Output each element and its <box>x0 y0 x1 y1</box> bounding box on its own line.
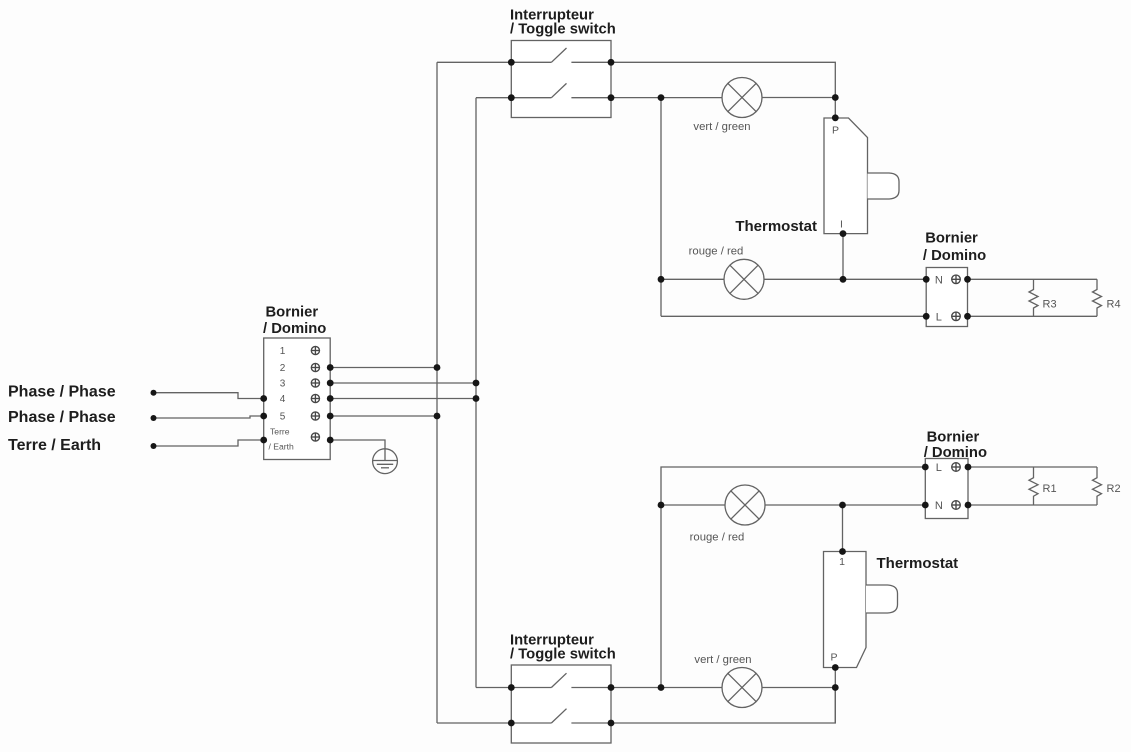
wire vertical bus V1 <box>436 62 438 723</box>
svg-text:Bornier: Bornier <box>925 231 978 247</box>
svg-text:L: L <box>936 312 942 324</box>
wire lamp DS2 to bornier X2 <box>764 278 926 280</box>
wire X1 earth to ground <box>330 440 385 449</box>
node phase 1 input <box>151 390 157 396</box>
bornier X3 label <box>924 430 987 462</box>
svg-text:Terre: Terre <box>270 427 290 437</box>
junction X1 row5 to V1 <box>434 413 441 420</box>
junction lamp DS1 feed <box>658 94 665 101</box>
wire X1 row2 to V1 <box>330 367 437 369</box>
toggle switch S1 label <box>510 8 616 38</box>
svg-text:1: 1 <box>839 556 845 568</box>
thermostat TH1 body <box>824 118 899 234</box>
svg-text:Terre / Earth: Terre / Earth <box>8 437 101 454</box>
bornier X1 row 5 <box>280 412 320 423</box>
svg-text:/ Toggle switch: / Toggle switch <box>510 647 616 663</box>
junction X1 row4 pin <box>327 395 334 402</box>
thermostat TH2 body <box>824 552 898 668</box>
junction TH2 pin P <box>832 664 839 671</box>
wire L row to resistors <box>968 315 1098 317</box>
svg-text:5: 5 <box>280 412 286 423</box>
svg-text:Thermostat: Thermostat <box>735 218 817 235</box>
wire phase 1 input <box>154 393 264 399</box>
bornier X3 pin N <box>935 500 960 512</box>
svg-text:/ Domino: / Domino <box>923 248 986 264</box>
junction S2 pole2 left <box>508 720 515 727</box>
wire earth input <box>154 440 264 446</box>
svg-text:R3: R3 <box>1043 299 1057 311</box>
svg-text:N: N <box>935 275 943 287</box>
svg-text:rouge / red: rouge / red <box>689 246 744 258</box>
junction X1 row3 to V2 <box>473 380 480 387</box>
svg-text:Bornier: Bornier <box>266 305 319 321</box>
wire lamp DS1 to junction <box>762 97 835 99</box>
wire lamp DS4 to junction <box>762 687 835 689</box>
wire S2 pole2 right up to thermostat P <box>611 688 835 724</box>
bornier X1 row 3 <box>280 379 320 390</box>
junction X1 row4 input <box>260 395 267 402</box>
wire S1 pole2 right to lamp DS1 <box>611 97 722 99</box>
bornier X3 pin L <box>936 462 961 474</box>
lamp DS3 rouge/red <box>725 485 765 525</box>
svg-text:/ Earth: / Earth <box>269 442 295 452</box>
lamp DS4 vert/green <box>722 668 762 708</box>
wire rouge row to lamp DS2 <box>661 278 724 280</box>
junction X1 earth input <box>260 437 267 444</box>
toggle switch S1 box <box>511 41 611 118</box>
bornier X1 label <box>263 305 326 338</box>
svg-text:Bornier: Bornier <box>927 430 980 446</box>
bornier X1 row 2 <box>280 363 320 374</box>
junction S1 pole2 right <box>608 94 615 101</box>
junction dots bottom section <box>508 464 971 727</box>
junction X1 earth pin <box>327 437 334 444</box>
svg-text:R1: R1 <box>1043 483 1057 495</box>
wire S1 pole1 left to V1 <box>437 61 511 63</box>
junction lamp DS4 right / TH2 P branch <box>832 684 839 691</box>
junction S2 pole1 left <box>508 684 515 691</box>
svg-text:I: I <box>840 219 843 231</box>
svg-text:P: P <box>832 125 839 137</box>
ground symbol <box>373 449 398 474</box>
wire N row lamp DS3 left <box>661 504 725 506</box>
junction S1 pole1 left <box>508 59 515 66</box>
wire S2 pole1 right to lamp DS4 <box>611 687 722 689</box>
wire X1 row4 to V2 <box>330 398 476 400</box>
wire phase 2 input <box>154 416 264 418</box>
svg-text:vert / green: vert / green <box>694 654 751 666</box>
svg-text:P: P <box>830 652 837 664</box>
junction TH2 pin 1 <box>839 548 846 555</box>
bornier X2 pin L <box>936 312 961 324</box>
lamp DS2 rouge/red <box>724 259 764 299</box>
bornier X2 box <box>926 268 967 327</box>
resistor R2 <box>1093 467 1121 505</box>
svg-text:R2: R2 <box>1107 483 1121 495</box>
bornier X1 row 1 <box>280 346 320 357</box>
switch S2 pole 2 <box>511 709 611 723</box>
switch S1 pole 1 <box>511 48 611 62</box>
svg-text:2: 2 <box>280 363 286 374</box>
bornier X3 box <box>925 459 968 519</box>
lamp DS1 vert/green <box>722 78 762 118</box>
svg-text:3: 3 <box>280 379 286 390</box>
resistor R1 <box>1029 467 1057 505</box>
junction X2 N right <box>964 276 971 283</box>
wire thermostat TH1 pin I down <box>842 234 844 280</box>
svg-text:/ Domino: / Domino <box>263 321 326 337</box>
junction X2 N left <box>923 276 930 283</box>
junction X1 row4 to V2 <box>473 395 480 402</box>
bornier X1 row 4 <box>280 394 320 405</box>
junction X3 N left <box>922 502 929 509</box>
svg-text:R4: R4 <box>1107 299 1121 311</box>
bornier X2 pin N <box>935 275 960 287</box>
svg-text:N: N <box>935 500 943 512</box>
junction TH1 pin I <box>840 230 847 237</box>
junction X1 row3 pin <box>327 380 334 387</box>
junction TH2 pin1 to N row <box>839 502 846 509</box>
wire S1 pole2 left to V2 <box>476 97 511 99</box>
bornier X1 row Terre/Earth <box>269 427 320 452</box>
svg-text:L: L <box>936 462 942 474</box>
junction lamp DS3 feed <box>658 502 665 509</box>
junction X2 L right <box>964 313 971 320</box>
junction X3 L right <box>965 464 972 471</box>
wire L row right to resistors <box>968 466 1097 468</box>
junction lamp DS2 feed <box>658 276 665 283</box>
junction lamp DS4 feed <box>658 684 665 691</box>
svg-text:/ Toggle switch: / Toggle switch <box>510 22 616 38</box>
bornier X2 label <box>923 231 986 264</box>
wire N row right to resistors <box>968 504 1097 506</box>
toggle switch S2 box <box>511 665 611 743</box>
junction S1 pole1 right <box>608 59 615 66</box>
wire thermostat TH2 pin P down <box>834 668 836 724</box>
resistor R4 <box>1093 279 1121 316</box>
junction S2 pole1 right <box>608 684 615 691</box>
svg-text:4: 4 <box>280 394 286 405</box>
resistor R3 <box>1029 279 1057 316</box>
wire S2 pole1 left to V2 <box>476 687 511 689</box>
svg-text:1: 1 <box>280 346 286 357</box>
junction X3 N right <box>965 502 972 509</box>
toggle switch S2 label <box>510 633 616 663</box>
wire X1 row3 to V2 <box>330 382 476 384</box>
wire vertical bus V2 <box>475 98 477 688</box>
wire vertical V3 lamp feed <box>660 98 662 317</box>
wire thermostat TH2 pin 1 up <box>842 505 844 552</box>
wire X1 row5 to V1 <box>330 415 437 417</box>
node earth input <box>151 443 157 449</box>
svg-text:Phase / Phase: Phase / Phase <box>8 384 116 401</box>
junction TH1 I to N row <box>840 276 847 283</box>
junction TH1 pin P <box>832 114 839 121</box>
node phase 2 input <box>151 415 157 421</box>
svg-text:vert / green: vert / green <box>693 121 750 133</box>
junction S1 pole2 left <box>508 94 515 101</box>
junction X1 row2 pin <box>327 364 334 371</box>
junction X1 row2 to V1 <box>434 364 441 371</box>
wire S2 pole2 left to V1 <box>437 722 511 724</box>
switch S2 pole 1 <box>511 673 611 687</box>
svg-text:Phase / Phase: Phase / Phase <box>8 409 116 426</box>
bornier X1 box <box>264 338 331 460</box>
wire S1 pole1 right then down to thermostat P <box>611 62 835 118</box>
wire L row top section <box>661 315 926 317</box>
switch S1 pole 2 <box>511 83 611 97</box>
junction X3 L left <box>922 464 929 471</box>
wire L row bottom section <box>661 467 925 688</box>
junction lamp DS1 right / TH1 P branch <box>832 94 839 101</box>
junction X2 L left <box>923 313 930 320</box>
svg-text:rouge / red: rouge / red <box>690 532 745 544</box>
junction S2 pole2 right <box>608 720 615 727</box>
wire N row to resistors <box>968 278 1098 280</box>
wire lamp DS3 to bornier X3 <box>765 504 925 506</box>
junction dots central section <box>151 364 480 449</box>
junction X1 row5 pin <box>327 413 334 420</box>
svg-text:Thermostat: Thermostat <box>877 555 959 572</box>
junction X1 row5 input <box>260 413 267 420</box>
junction dots top section <box>508 59 971 320</box>
